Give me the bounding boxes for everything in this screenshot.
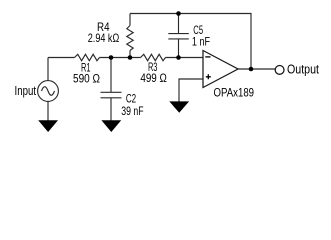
svg-text:Output: Output bbox=[287, 62, 319, 77]
svg-text:590 Ω: 590 Ω bbox=[73, 71, 100, 85]
svg-text:1 nF: 1 nF bbox=[192, 34, 210, 48]
svg-text:Input: Input bbox=[15, 83, 37, 98]
svg-text:499 Ω: 499 Ω bbox=[140, 71, 167, 85]
svg-text:2.94 kΩ: 2.94 kΩ bbox=[88, 31, 120, 45]
svg-text:39 nF: 39 nF bbox=[121, 104, 143, 118]
svg-text:OPAx189: OPAx189 bbox=[214, 85, 255, 99]
